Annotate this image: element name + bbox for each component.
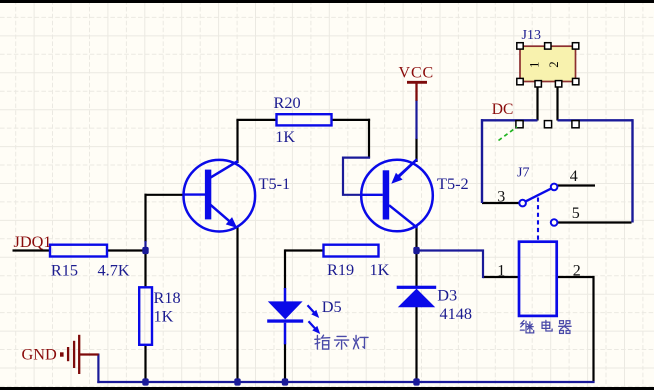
svg-text:2: 2 [573,263,581,280]
svg-text:GND: GND [22,345,58,364]
svg-text:R20: R20 [274,93,301,112]
svg-text:VCC: VCC [399,65,435,82]
svg-text:3: 3 [497,189,505,206]
svg-text:R15: R15 [51,261,78,280]
svg-text:T5-2: T5-2 [437,174,469,193]
svg-text:1K: 1K [370,260,390,279]
svg-text:DC: DC [492,101,514,118]
svg-text:1: 1 [497,263,505,280]
svg-text:5: 5 [572,205,580,222]
svg-text:D3: D3 [437,286,457,305]
svg-text:4148: 4148 [440,304,473,323]
svg-text:D5: D5 [322,297,342,316]
svg-text:1: 1 [528,62,542,68]
svg-text:J7: J7 [517,166,529,181]
svg-text:T5-1: T5-1 [259,174,291,193]
svg-text:2: 2 [547,61,561,67]
svg-text:1K: 1K [154,307,174,326]
svg-text:J13: J13 [522,28,541,43]
svg-text:JDQ1: JDQ1 [14,232,52,251]
svg-text:4.7K: 4.7K [98,261,130,280]
svg-text:1K: 1K [275,127,295,146]
svg-text:4: 4 [570,168,578,185]
svg-text:R19: R19 [327,260,354,279]
svg-text:R18: R18 [154,288,181,307]
